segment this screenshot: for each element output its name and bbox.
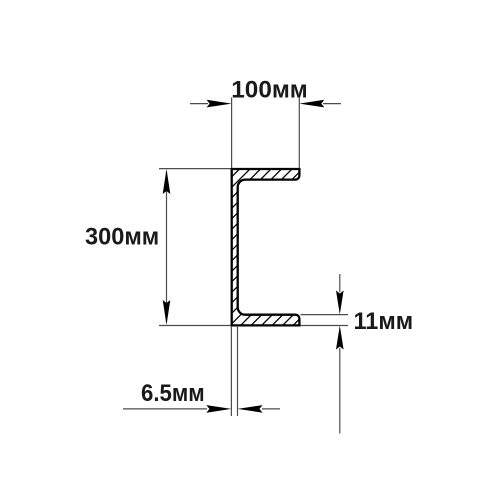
extension line left of web-thickness dim	[230, 326, 232, 416]
height arrow bottom	[163, 300, 171, 325]
svg-text:100мм: 100мм	[231, 77, 307, 104]
extension line top of flange-thickness dim	[301, 314, 349, 316]
svg-text:300мм: 300мм	[85, 224, 159, 251]
flange-thickness arrow down	[336, 291, 344, 315]
height dimension line	[166, 172, 168, 322]
hatching of channel section	[58, 155, 485, 340]
width dimension line left tail	[190, 103, 208, 105]
extension line left of width dim	[231, 98, 233, 169]
flange-thickness upper dimension line	[339, 274, 341, 292]
web-thickness arrow right	[238, 405, 263, 413]
svg-text:6.5мм: 6.5мм	[141, 380, 205, 407]
web-thickness arrow left	[206, 405, 231, 413]
extension line bottom of height dim	[159, 325, 231, 327]
extension line right of web-thickness dim	[237, 326, 239, 416]
web-thickness dimension line left tail	[123, 408, 207, 410]
channel profile outline	[232, 169, 300, 325]
extension line right of width dim	[298, 98, 300, 169]
extension line bottom of flange-thickness dim	[301, 325, 349, 327]
width arrow right	[299, 100, 324, 108]
flange-thickness lower dimension line	[339, 348, 341, 434]
flange-thickness arrow up	[336, 326, 344, 350]
width dimension line right tail	[323, 103, 341, 105]
web-thickness dimension line right tail	[262, 408, 280, 410]
svg-text:11мм: 11мм	[354, 308, 414, 335]
width arrow left	[207, 100, 232, 108]
height arrow top	[163, 169, 171, 194]
extension line top of height dim	[159, 168, 231, 170]
